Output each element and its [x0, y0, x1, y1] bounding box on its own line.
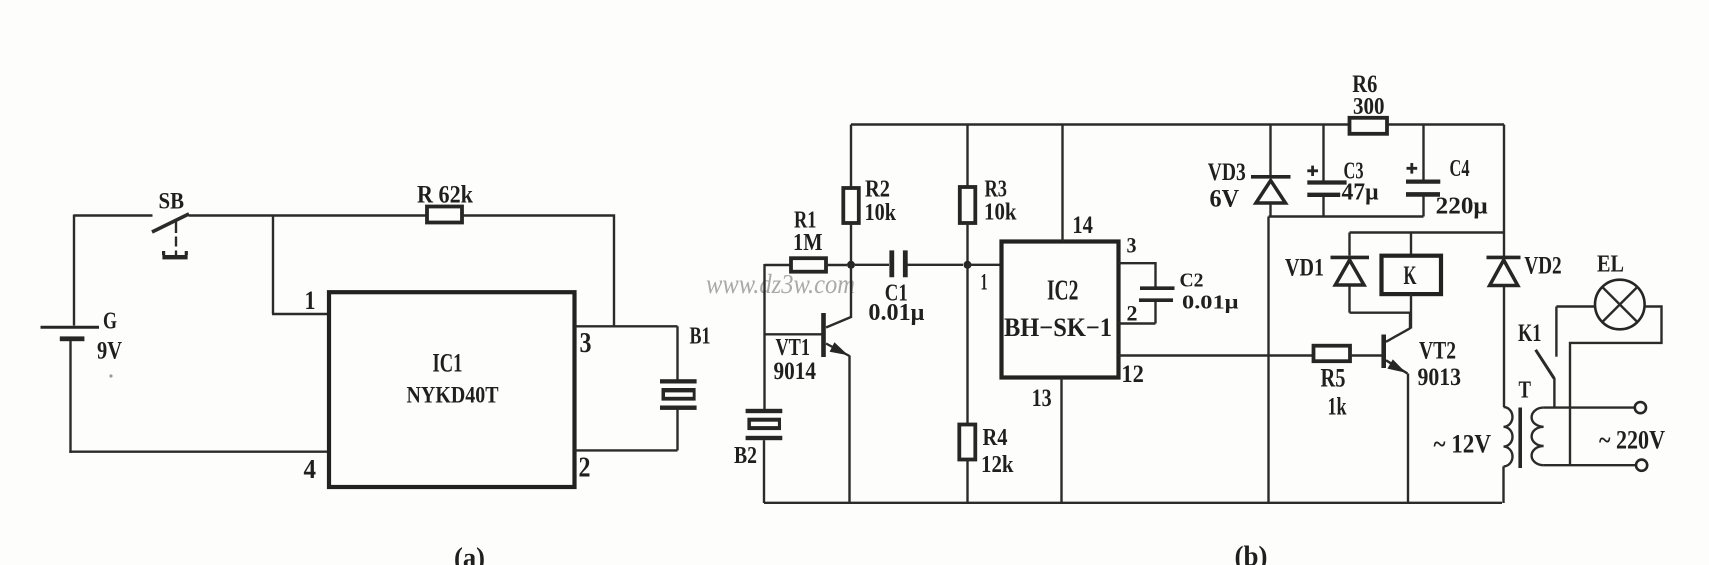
svg-text:47μ: 47μ: [1342, 180, 1379, 206]
svg-text:1: 1: [305, 286, 316, 315]
wire bottom rail section a: [69, 451, 329, 453]
svg-text:~ 220V: ~ 220V: [1599, 425, 1665, 454]
resistor R6: [1350, 118, 1388, 134]
wire switch to resistor R: [189, 214, 427, 216]
wire ground vertical: [1267, 217, 1269, 504]
svg-text:B2: B2: [734, 443, 757, 469]
wire pin 2 IC2: [1119, 322, 1156, 324]
svg-text:VT1: VT1: [776, 335, 811, 361]
op-amp IC1 box: [329, 292, 575, 487]
svg-text:1: 1: [981, 269, 988, 294]
svg-text:300: 300: [1353, 94, 1385, 120]
wire pin1 drop: [272, 216, 329, 315]
diode VD2: [1487, 257, 1521, 407]
resistor R1: [765, 258, 848, 272]
svg-text:K: K: [1404, 261, 1417, 290]
svg-text:C4: C4: [1450, 156, 1470, 182]
capacitor C3: [1307, 125, 1346, 217]
svg-text:14: 14: [1072, 212, 1093, 239]
wire secondary top to terminal: [1544, 406, 1635, 408]
resistor R4: [959, 265, 975, 503]
svg-text:IC1: IC1: [433, 348, 463, 377]
wire battery left vertical: [73, 215, 75, 326]
svg-text:12k: 12k: [981, 452, 1014, 478]
wire top rail right of R6: [1387, 123, 1505, 125]
svg-text:220μ: 220μ: [1436, 194, 1488, 220]
wire third rail: [1350, 231, 1505, 233]
svg-text:2: 2: [579, 452, 591, 484]
svg-text:G: G: [103, 309, 117, 335]
svg-text:VT2: VT2: [1419, 337, 1456, 364]
wire pin2: [575, 449, 678, 451]
svg-text:R4: R4: [983, 425, 1008, 451]
wire second rail: [1269, 215, 1424, 217]
svg-text:10k: 10k: [865, 200, 897, 226]
svg-text:T: T: [1519, 378, 1532, 404]
transistor VT2: [1381, 313, 1410, 503]
transistor VT1: [765, 264, 852, 503]
diode VD1: [1331, 233, 1370, 313]
svg-text:VD2: VD2: [1524, 253, 1562, 280]
resistor R 62k: [427, 207, 462, 223]
wire pin 14: [1061, 125, 1063, 242]
svg-text:0.01μ: 0.01μ: [1182, 292, 1239, 314]
svg-text:www.dz3w.com: www.dz3w.com: [706, 269, 855, 299]
terminal top circle: [1635, 402, 1646, 413]
wire pin 12 to R5: [1119, 354, 1314, 356]
resistor R2: [843, 125, 859, 266]
svg-text:1M: 1M: [793, 230, 823, 256]
buzzer B1: [660, 326, 697, 450]
svg-text:3: 3: [1127, 232, 1137, 257]
svg-text:9013: 9013: [1418, 364, 1462, 391]
wire pin 13: [1060, 378, 1062, 504]
resistor R5: [1314, 346, 1382, 362]
capacitor C1: [855, 250, 963, 277]
svg-text:BH−SK−1: BH−SK−1: [1004, 313, 1112, 342]
wire resistor to right corner: [462, 216, 614, 327]
wire pin 3 IC2: [1119, 263, 1156, 287]
wire lamp left to K1: [1556, 305, 1595, 307]
transformer T core: [1518, 408, 1522, 469]
capacitor C4: [1406, 125, 1440, 217]
wire VD1 to K bottom: [1350, 312, 1412, 314]
svg-text:6V: 6V: [1210, 186, 1240, 213]
svg-text:IC2: IC2: [1047, 276, 1079, 307]
svg-text:9V: 9V: [97, 338, 122, 365]
svg-text:VD1: VD1: [1285, 255, 1324, 282]
svg-text:~ 12V: ~ 12V: [1434, 429, 1492, 458]
switch SB: [152, 214, 189, 260]
wire primary bottom to rail: [1502, 466, 1504, 503]
svg-text:R 62k: R 62k: [417, 180, 474, 209]
svg-text:1k: 1k: [1328, 394, 1347, 421]
wire secondary bottom to terminal: [1544, 464, 1636, 466]
svg-text:EL: EL: [1597, 252, 1624, 278]
wire lamp right return: [1570, 307, 1662, 466]
junction node VT1-collector/R1/R2/C1: [847, 261, 855, 269]
svg-text:SB: SB: [159, 189, 185, 214]
svg-text:13: 13: [1032, 385, 1052, 412]
battery G: [41, 327, 100, 453]
relay K: [1382, 233, 1442, 329]
wire node to IC2 pin 1: [968, 264, 1002, 266]
transformer T secondary winding: [1532, 408, 1544, 466]
terminal bottom circle: [1636, 460, 1647, 471]
wire bottom rail section b: [764, 502, 1502, 504]
switch K1: [1536, 307, 1557, 408]
svg-text:NYKD40T: NYKD40T: [407, 382, 499, 407]
wire pin3: [575, 325, 678, 327]
microphone B2: [746, 409, 783, 503]
svg-text:K1: K1: [1518, 320, 1542, 347]
svg-text:VD3: VD3: [1208, 159, 1246, 186]
IC2 box: [1002, 242, 1119, 378]
speck: [109, 374, 112, 377]
svg-text:R2: R2: [865, 177, 890, 203]
wire battery-to-switch top: [74, 214, 153, 216]
svg-text:12: 12: [1121, 361, 1144, 388]
lamp EL: [1595, 280, 1645, 330]
svg-text:R5: R5: [1321, 363, 1346, 392]
svg-text:9014: 9014: [774, 358, 817, 385]
resistor R3: [960, 125, 976, 266]
svg-text:0.01μ: 0.01μ: [868, 300, 924, 326]
svg-text:4: 4: [304, 454, 317, 484]
svg-text:C2: C2: [1180, 269, 1204, 291]
svg-text:(a): (a): [454, 542, 485, 565]
svg-text:2: 2: [1127, 300, 1138, 325]
capacitor C2: [1139, 288, 1175, 323]
zener diode VD3: [1251, 125, 1291, 217]
svg-text:10k: 10k: [984, 200, 1017, 226]
junction node C1/R3/IC2-pin1: [964, 261, 972, 269]
wire top rail left: [851, 123, 1350, 125]
svg-text:B1: B1: [690, 324, 711, 350]
transformer T primary winding: [1504, 407, 1513, 466]
svg-text:(b): (b): [1235, 541, 1268, 565]
wire right vertical top-rail to VD2: [1503, 125, 1505, 257]
svg-text:3: 3: [580, 327, 592, 359]
